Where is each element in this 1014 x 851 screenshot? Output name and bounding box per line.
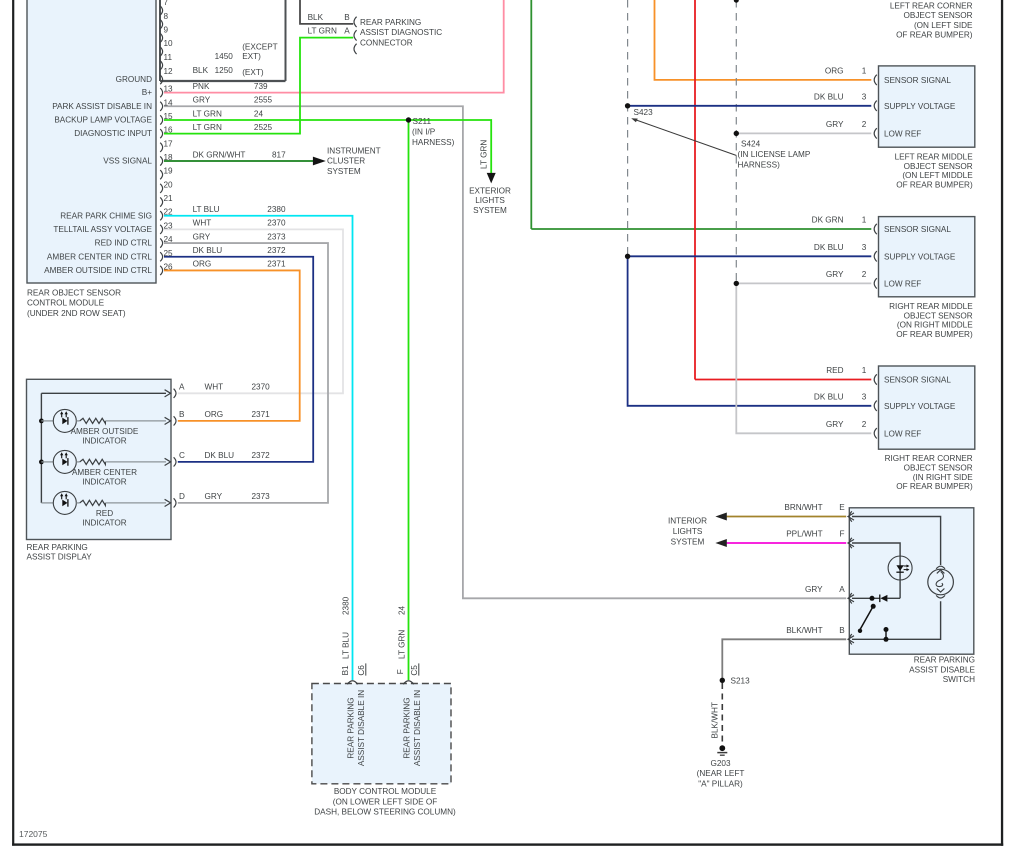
svg-text:INDICATOR: INDICATOR bbox=[82, 478, 126, 487]
svg-text:LT BLU: LT BLU bbox=[342, 632, 351, 659]
svg-text:1: 1 bbox=[862, 216, 867, 225]
svg-text:C6: C6 bbox=[357, 665, 366, 676]
svg-text:WHT: WHT bbox=[205, 383, 224, 392]
svg-text:OF REAR BUMPER): OF REAR BUMPER) bbox=[896, 31, 973, 40]
svg-text:E: E bbox=[839, 503, 845, 512]
svg-text:S213: S213 bbox=[731, 677, 751, 686]
svg-text:S424: S424 bbox=[741, 139, 761, 148]
svg-text:LIGHTS: LIGHTS bbox=[673, 527, 703, 536]
svg-text:9: 9 bbox=[164, 25, 169, 34]
svg-text:(IN RIGHT SIDE: (IN RIGHT SIDE bbox=[913, 473, 973, 482]
svg-text:(ON LEFT MIDDLE: (ON LEFT MIDDLE bbox=[902, 171, 973, 180]
svg-text:DK BLU: DK BLU bbox=[193, 246, 223, 255]
svg-text:SENSOR SIGNAL: SENSOR SIGNAL bbox=[884, 225, 951, 234]
svg-text:B: B bbox=[179, 410, 185, 419]
svg-text:25: 25 bbox=[164, 249, 174, 258]
svg-text:F: F bbox=[839, 530, 844, 539]
svg-text:2380: 2380 bbox=[342, 596, 351, 615]
svg-text:GRY: GRY bbox=[826, 270, 844, 279]
svg-text:GROUND: GROUND bbox=[116, 75, 152, 84]
svg-text:BLK: BLK bbox=[193, 66, 209, 75]
svg-text:LT GRN: LT GRN bbox=[480, 140, 489, 169]
svg-text:"A" PILLAR): "A" PILLAR) bbox=[698, 779, 743, 788]
svg-text:SENSOR SIGNAL: SENSOR SIGNAL bbox=[884, 76, 951, 85]
svg-text:(EXCEPT: (EXCEPT bbox=[242, 42, 278, 51]
svg-text:OBJECT SENSOR: OBJECT SENSOR bbox=[904, 463, 973, 472]
svg-text:PPL/WHT: PPL/WHT bbox=[786, 530, 822, 539]
svg-text:SYSTEM: SYSTEM bbox=[671, 538, 705, 547]
svg-text:INDICATOR: INDICATOR bbox=[82, 437, 126, 446]
svg-text:22: 22 bbox=[164, 208, 174, 217]
svg-text:B: B bbox=[839, 626, 845, 635]
svg-text:1: 1 bbox=[862, 67, 867, 76]
svg-text:PNK: PNK bbox=[193, 82, 210, 91]
svg-text:3: 3 bbox=[862, 243, 867, 252]
svg-text:A: A bbox=[344, 27, 350, 36]
svg-text:2: 2 bbox=[862, 420, 867, 429]
svg-text:C5: C5 bbox=[410, 665, 419, 676]
svg-text:2370: 2370 bbox=[252, 383, 271, 392]
svg-text:GRY: GRY bbox=[805, 585, 823, 594]
svg-text:EXTERIOR: EXTERIOR bbox=[469, 186, 511, 195]
svg-text:D: D bbox=[179, 492, 185, 501]
svg-text:(NEAR LEFT: (NEAR LEFT bbox=[697, 769, 745, 778]
svg-text:(IN I/P: (IN I/P bbox=[412, 128, 436, 137]
svg-text:BLK/WHT: BLK/WHT bbox=[711, 702, 720, 738]
svg-text:ASSIST DISABLE: ASSIST DISABLE bbox=[909, 665, 975, 674]
svg-text:BRN/WHT: BRN/WHT bbox=[784, 503, 822, 512]
svg-text:VSS SIGNAL: VSS SIGNAL bbox=[103, 157, 152, 166]
svg-text:11: 11 bbox=[164, 53, 173, 62]
svg-text:(ON LOWER LEFT SIDE OF: (ON LOWER LEFT SIDE OF bbox=[333, 797, 437, 806]
svg-text:DK BLU: DK BLU bbox=[814, 243, 844, 252]
svg-text:DIAGNOSTIC INPUT: DIAGNOSTIC INPUT bbox=[74, 129, 152, 138]
svg-text:DK BLU: DK BLU bbox=[814, 93, 844, 102]
svg-text:OF REAR BUMPER): OF REAR BUMPER) bbox=[896, 181, 973, 190]
svg-text:REAR PARKING: REAR PARKING bbox=[347, 697, 356, 758]
svg-text:OF REAR BUMPER): OF REAR BUMPER) bbox=[896, 482, 973, 491]
svg-text:DASH, BELOW STEERING COLUMN): DASH, BELOW STEERING COLUMN) bbox=[314, 808, 456, 817]
svg-text:AMBER CENTER: AMBER CENTER bbox=[72, 468, 137, 477]
svg-text:DK BLU: DK BLU bbox=[205, 451, 235, 460]
svg-text:HARNESS): HARNESS) bbox=[738, 161, 781, 170]
svg-text:PARK ASSIST DISABLE IN: PARK ASSIST DISABLE IN bbox=[52, 102, 152, 111]
svg-text:SUPPLY VOLTAGE: SUPPLY VOLTAGE bbox=[884, 402, 956, 411]
svg-text:1250: 1250 bbox=[215, 66, 234, 75]
svg-text:BLK/WHT: BLK/WHT bbox=[786, 626, 822, 635]
svg-text:F: F bbox=[396, 669, 405, 674]
svg-text:SUPPLY VOLTAGE: SUPPLY VOLTAGE bbox=[884, 253, 956, 262]
svg-text:2373: 2373 bbox=[267, 232, 286, 241]
svg-text:3: 3 bbox=[862, 93, 867, 102]
svg-text:INSTRUMENT: INSTRUMENT bbox=[327, 146, 381, 155]
svg-text:LT BLU: LT BLU bbox=[193, 205, 220, 214]
svg-text:17: 17 bbox=[164, 139, 174, 148]
svg-text:2525: 2525 bbox=[254, 123, 273, 132]
svg-text:RED: RED bbox=[96, 509, 113, 518]
svg-text:C: C bbox=[179, 451, 185, 460]
svg-text:10: 10 bbox=[164, 39, 174, 48]
svg-text:(EXT): (EXT) bbox=[242, 68, 264, 77]
svg-text:INTERIOR: INTERIOR bbox=[668, 517, 707, 526]
svg-text:18: 18 bbox=[164, 153, 174, 162]
svg-text:(UNDER 2ND ROW SEAT): (UNDER 2ND ROW SEAT) bbox=[27, 309, 126, 318]
svg-text:2: 2 bbox=[862, 120, 867, 129]
svg-text:SUPPLY VOLTAGE: SUPPLY VOLTAGE bbox=[884, 102, 956, 111]
svg-text:SYSTEM: SYSTEM bbox=[473, 206, 507, 215]
svg-text:RED: RED bbox=[826, 366, 843, 375]
svg-text:REAR PARK CHIME SIG: REAR PARK CHIME SIG bbox=[60, 211, 152, 220]
svg-text:1: 1 bbox=[862, 366, 867, 375]
svg-text:(IN LICENSE LAMP: (IN LICENSE LAMP bbox=[738, 150, 811, 159]
svg-text:2371: 2371 bbox=[267, 260, 286, 269]
svg-text:BLK: BLK bbox=[308, 13, 324, 22]
svg-text:1450: 1450 bbox=[215, 52, 234, 61]
svg-text:817: 817 bbox=[272, 150, 286, 159]
svg-text:ASSIST DISABLE IN: ASSIST DISABLE IN bbox=[357, 690, 366, 766]
svg-text:LT GRN: LT GRN bbox=[193, 123, 222, 132]
svg-text:RIGHT REAR CORNER: RIGHT REAR CORNER bbox=[885, 454, 973, 463]
svg-text:RED IND CTRL: RED IND CTRL bbox=[95, 239, 153, 248]
svg-text:REAR OBJECT SENSOR: REAR OBJECT SENSOR bbox=[27, 288, 121, 297]
svg-text:LT GRN: LT GRN bbox=[308, 27, 337, 36]
svg-text:ORG: ORG bbox=[825, 67, 844, 76]
svg-text:7: 7 bbox=[164, 0, 169, 7]
svg-text:12: 12 bbox=[164, 67, 174, 76]
svg-text:LOW REF: LOW REF bbox=[884, 130, 921, 139]
svg-text:OBJECT SENSOR: OBJECT SENSOR bbox=[904, 311, 973, 320]
svg-text:LEFT REAR CORNER: LEFT REAR CORNER bbox=[890, 1, 973, 10]
svg-text:16: 16 bbox=[164, 126, 174, 135]
svg-text:LIGHTS: LIGHTS bbox=[475, 196, 505, 205]
svg-text:24: 24 bbox=[164, 235, 174, 244]
svg-text:LT GRN: LT GRN bbox=[193, 109, 222, 118]
svg-text:13: 13 bbox=[164, 85, 174, 94]
svg-text:LEFT REAR MIDDLE: LEFT REAR MIDDLE bbox=[895, 152, 974, 161]
svg-text:2371: 2371 bbox=[252, 410, 271, 419]
svg-text:2370: 2370 bbox=[267, 219, 286, 228]
svg-text:DK GRN/WHT: DK GRN/WHT bbox=[193, 150, 246, 159]
svg-text:REAR PARKING: REAR PARKING bbox=[360, 18, 421, 27]
svg-text:ASSIST DISPLAY: ASSIST DISPLAY bbox=[27, 553, 93, 562]
svg-text:REAR PARKING: REAR PARKING bbox=[403, 697, 412, 758]
svg-text:2: 2 bbox=[862, 270, 867, 279]
svg-text:GRY: GRY bbox=[205, 492, 223, 501]
svg-text:14: 14 bbox=[164, 98, 174, 107]
svg-text:AMBER CENTER IND CTRL: AMBER CENTER IND CTRL bbox=[47, 252, 153, 261]
svg-text:ORG: ORG bbox=[193, 260, 212, 269]
svg-text:2373: 2373 bbox=[252, 492, 271, 501]
svg-text:AMBER OUTSIDE IND CTRL: AMBER OUTSIDE IND CTRL bbox=[44, 266, 152, 275]
svg-text:OBJECT SENSOR: OBJECT SENSOR bbox=[903, 11, 972, 20]
svg-text:3: 3 bbox=[862, 393, 867, 402]
svg-text:RIGHT REAR MIDDLE: RIGHT REAR MIDDLE bbox=[889, 302, 973, 311]
svg-text:20: 20 bbox=[164, 180, 174, 189]
svg-text:BODY CONTROL MODULE: BODY CONTROL MODULE bbox=[334, 787, 437, 796]
svg-text:23: 23 bbox=[164, 221, 174, 230]
svg-text:DK BLU: DK BLU bbox=[814, 393, 844, 402]
svg-text:24: 24 bbox=[254, 109, 264, 118]
svg-text:21: 21 bbox=[164, 194, 174, 203]
svg-text:(ON RIGHT MIDDLE: (ON RIGHT MIDDLE bbox=[897, 321, 973, 330]
svg-text:8: 8 bbox=[164, 12, 169, 21]
svg-text:B1: B1 bbox=[341, 665, 350, 675]
svg-text:SWITCH: SWITCH bbox=[943, 675, 975, 684]
svg-text:AMBER OUTSIDE: AMBER OUTSIDE bbox=[71, 427, 139, 436]
svg-text:G203: G203 bbox=[710, 759, 730, 768]
svg-text:ORG: ORG bbox=[205, 410, 224, 419]
svg-text:ASSIST DISABLE IN: ASSIST DISABLE IN bbox=[413, 690, 422, 766]
svg-text:WHT: WHT bbox=[193, 219, 212, 228]
svg-text:2380: 2380 bbox=[267, 205, 286, 214]
svg-text:GRY: GRY bbox=[826, 120, 844, 129]
svg-text:ASSIST DIAGNOSTIC: ASSIST DIAGNOSTIC bbox=[360, 28, 442, 37]
svg-text:B+: B+ bbox=[142, 88, 152, 97]
svg-text:GRY: GRY bbox=[193, 232, 211, 241]
svg-text:DK GRN: DK GRN bbox=[812, 216, 844, 225]
svg-text:S423: S423 bbox=[634, 108, 654, 117]
svg-text:SENSOR SIGNAL: SENSOR SIGNAL bbox=[884, 376, 951, 385]
svg-text:24: 24 bbox=[398, 605, 407, 615]
svg-text:GRY: GRY bbox=[193, 96, 211, 105]
svg-text:EXT): EXT) bbox=[242, 52, 261, 61]
svg-text:2372: 2372 bbox=[252, 451, 271, 460]
svg-text:LOW REF: LOW REF bbox=[884, 280, 921, 289]
svg-text:SYSTEM: SYSTEM bbox=[327, 167, 361, 176]
svg-text:REAR PARKING: REAR PARKING bbox=[914, 656, 975, 665]
svg-text:15: 15 bbox=[164, 112, 174, 121]
svg-text:S211: S211 bbox=[413, 117, 432, 126]
svg-text:2372: 2372 bbox=[267, 246, 286, 255]
svg-text:(ON LEFT SIDE: (ON LEFT SIDE bbox=[914, 21, 973, 30]
svg-text:GRY: GRY bbox=[826, 420, 844, 429]
svg-text:OBJECT SENSOR: OBJECT SENSOR bbox=[904, 162, 973, 171]
svg-text:2555: 2555 bbox=[254, 96, 273, 105]
svg-text:CLUSTER: CLUSTER bbox=[327, 157, 365, 166]
svg-text:CONTROL MODULE: CONTROL MODULE bbox=[27, 299, 105, 308]
svg-text:LT GRN: LT GRN bbox=[398, 630, 407, 659]
svg-text:CONNECTOR: CONNECTOR bbox=[360, 38, 413, 47]
svg-text:19: 19 bbox=[164, 167, 174, 176]
svg-text:REAR PARKING: REAR PARKING bbox=[27, 543, 88, 552]
svg-text:739: 739 bbox=[254, 82, 268, 91]
svg-text:26: 26 bbox=[164, 262, 174, 271]
svg-text:A: A bbox=[839, 585, 845, 594]
svg-text:OF REAR BUMPER): OF REAR BUMPER) bbox=[896, 330, 973, 339]
svg-text:A: A bbox=[179, 382, 185, 391]
svg-text:172075: 172075 bbox=[19, 829, 48, 839]
svg-text:INDICATOR: INDICATOR bbox=[82, 519, 126, 528]
svg-text:LOW REF: LOW REF bbox=[884, 430, 921, 439]
svg-text:B: B bbox=[344, 13, 350, 22]
svg-text:HARNESS): HARNESS) bbox=[412, 138, 455, 147]
svg-text:TELLTAIL ASSY VOLTAGE: TELLTAIL ASSY VOLTAGE bbox=[53, 225, 152, 234]
svg-text:BACKUP LAMP VOLTAGE: BACKUP LAMP VOLTAGE bbox=[54, 116, 152, 125]
